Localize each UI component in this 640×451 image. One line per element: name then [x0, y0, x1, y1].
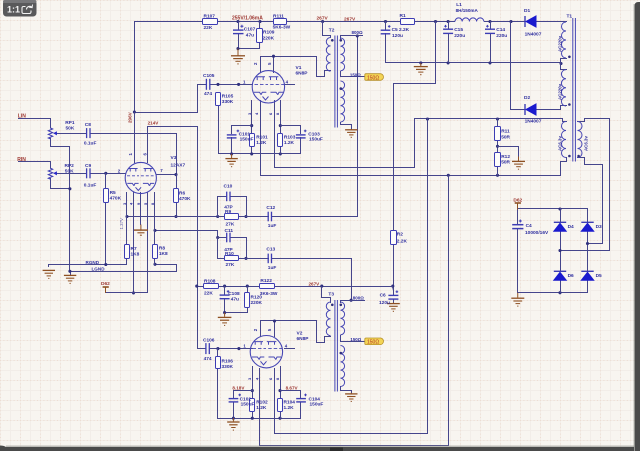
resistor R120 [245, 293, 250, 308]
resistor R102 [250, 399, 255, 412]
svg-text:22K: 22K [204, 290, 213, 296]
resistor R105 [216, 93, 221, 106]
node R106 top junction [216, 347, 219, 350]
inductor L1 [455, 18, 484, 22]
node R101 gnd junction [250, 152, 253, 155]
resistor R103 [278, 134, 283, 147]
ground R11 R12 mid [512, 157, 525, 170]
svg-text:V2: V2 [297, 330, 303, 336]
transformer T3 [326, 300, 344, 392]
node heater D62 junction [132, 291, 135, 294]
node heater x448 junction [447, 174, 450, 177]
svg-text:R10: R10 [225, 251, 234, 257]
svg-text:1uF: 1uF [268, 223, 277, 229]
wire 267V top rail left segment [135, 22, 203, 162]
window shadow right edge [635, 2, 640, 451]
svg-text:C101: C101 [239, 131, 251, 137]
svg-text:150Ω: 150Ω [350, 337, 361, 342]
svg-text:1K8: 1K8 [131, 251, 140, 257]
power port D62 right [515, 203, 521, 210]
wire V1 cathode right node to C103 [281, 126, 301, 134]
svg-text:50K: 50K [65, 169, 74, 175]
wire C108 stem [224, 287, 226, 295]
node C107 ground junction [236, 47, 239, 50]
svg-text:214V: 214V [148, 120, 160, 125]
power port D62 left [103, 287, 109, 293]
potentiometer RP2 [48, 168, 57, 179]
wire V2 cathode right node to C104 [281, 391, 301, 399]
wire V3 pin8 drop [154, 193, 156, 245]
wire V3 plate2 line to C106 [148, 127, 206, 349]
wire V1 cathode left drop [251, 101, 253, 134]
wire T2 secondary tap to 150ohm label [341, 72, 366, 77]
wire C12 to T2 secondary tap line [272, 36, 358, 217]
wire C11 right riser [231, 238, 247, 259]
svg-text:2.2K: 2.2K [397, 239, 408, 245]
node RGND R5 junction [104, 263, 107, 266]
wire R7 bottom stem [126, 259, 128, 265]
ground under C107 [231, 49, 245, 64]
ground V3 heater pin9 [134, 225, 148, 236]
node V1 pin1 [237, 83, 240, 86]
node V1 cathode right junction [279, 124, 282, 127]
wire V1 plates tie bar [261, 57, 331, 77]
svg-text:27K: 27K [226, 222, 235, 228]
ground T3 secondary [345, 393, 357, 402]
node R8 bottom junction [153, 263, 156, 266]
wire T3 secondary tap to 150ohm label [341, 336, 366, 342]
svg-text:470K: 470K [110, 196, 122, 202]
node V2 plates junction [273, 319, 276, 322]
svg-text:220u: 220u [454, 33, 465, 39]
wire T3 primary top lead [322, 287, 331, 303]
resistor R7 [125, 245, 130, 259]
wire C107 stem bottom to ground node [239, 34, 260, 49]
svg-text:150Ω: 150Ω [367, 75, 379, 81]
svg-text:R102: R102 [256, 400, 268, 406]
node filter gnd symbol junction [419, 61, 422, 64]
svg-text:1N4007: 1N4007 [525, 119, 542, 125]
svg-text:1:1: 1:1 [7, 5, 20, 15]
potentiometer RP1 [48, 128, 57, 139]
wire C10 loop right riser [231, 197, 247, 217]
node R11 R12 mid junction [496, 145, 499, 148]
wire T3 secondary bottom to ground [341, 387, 352, 393]
ground RGND [43, 270, 55, 278]
svg-text:267V: 267V [344, 17, 356, 23]
svg-text:C12: C12 [266, 205, 275, 211]
resistor R12 [495, 153, 501, 167]
ground T2 secondary [345, 129, 357, 137]
node C108 top junction [223, 285, 226, 288]
node T3 primary junction [320, 285, 323, 288]
wire top rail R107 to R111 [218, 21, 274, 23]
svg-text:R12: R12 [501, 154, 510, 160]
node D4 D6 mid junction [558, 249, 561, 252]
svg-text:D1: D1 [524, 8, 530, 14]
wire R2 bottom to C6 node [393, 245, 395, 296]
node line B left end [153, 229, 156, 232]
wire T3 secondary top lead [341, 301, 365, 303]
svg-text:800Ω: 800Ω [352, 30, 364, 35]
capacitor C5 [381, 25, 391, 34]
svg-text:R8: R8 [159, 245, 165, 251]
wire C104 bottom stem [300, 403, 302, 419]
svg-text:R2: R2 [397, 232, 403, 238]
wire heater rail 119 [415, 119, 567, 168]
wire R9 right lead to C12 [239, 216, 269, 218]
svg-text:C108: C108 [228, 291, 240, 297]
svg-text:800Ω: 800Ω [353, 296, 365, 301]
wire V2 pin4 stub [285, 348, 295, 350]
wire R104 bottom stem [280, 412, 282, 419]
svg-text:D5: D5 [596, 273, 602, 279]
wire 267V bottom rail R108 to R122 [197, 286, 204, 288]
svg-text:50K: 50K [66, 126, 75, 132]
capacitor C104 [296, 394, 307, 402]
resistor R5 [104, 189, 109, 203]
capacitor C13 [268, 254, 271, 264]
wire heater rail 175 [261, 101, 567, 176]
netlabel 150ohm yellow T3 [365, 338, 384, 346]
wire C103 bottom stem [300, 138, 302, 154]
node T1 center tap junction [559, 62, 562, 65]
resistor R111 [274, 19, 287, 25]
wire C6 top stem [393, 287, 394, 291]
wire R10 right lead to C13 [239, 258, 269, 260]
svg-text:R120: R120 [251, 295, 263, 301]
wire V2 cathode left node to C102 [234, 391, 253, 399]
svg-text:T1: T1 [567, 14, 573, 20]
wire V3 cathode line B [155, 231, 218, 238]
wire R106 bottom stem to cathode gnd rail [218, 369, 301, 419]
wire V1 cathode left node to C101 [232, 126, 252, 134]
node V1 plates junction [272, 55, 275, 58]
wire R6 stem bottom [176, 203, 178, 217]
capacitor C107 [233, 25, 244, 34]
svg-text:C106: C106 [203, 337, 215, 343]
wire R101 bottom stem [251, 147, 253, 154]
wire R11 mid to ground [498, 147, 519, 157]
node R108 left junction [195, 285, 198, 288]
capacitor C101 [227, 130, 239, 138]
ground LGND [64, 275, 76, 283]
wire top rail R111 to R1 [287, 21, 401, 23]
wire V2 cathode left drop [252, 367, 254, 399]
node C108 gnd junction [223, 311, 226, 314]
svg-text:267V: 267V [317, 16, 329, 22]
wire D3 column [587, 231, 589, 272]
wire D3 top drop [587, 209, 589, 223]
resistor R109 [257, 29, 263, 43]
node C14 bottom junction [488, 61, 491, 64]
svg-text:1uF: 1uF [268, 265, 277, 271]
svg-text:R111: R111 [273, 14, 284, 20]
wire B+ rail L1 to D1 [485, 21, 525, 23]
diode D1 [525, 16, 536, 27]
node T2 secondary top junction [356, 34, 359, 37]
wire T2 primary top lead [323, 22, 331, 38]
wire raw B+ rail R1 to L1 [415, 21, 455, 23]
svg-text:8.18V: 8.18V [232, 386, 245, 391]
wire C11 loop left drop to R10 [218, 238, 225, 259]
svg-text:AC6.3v: AC6.3v [558, 136, 563, 151]
svg-text:D2: D2 [524, 95, 530, 101]
ground under C108 [218, 313, 232, 326]
capacitor C6 [388, 290, 398, 299]
wire C107 stem top [238, 22, 240, 30]
svg-text:220u: 220u [496, 33, 507, 39]
svg-text:1.2K: 1.2K [256, 405, 267, 411]
tube V2 [250, 336, 282, 368]
capacitor C103 [296, 130, 307, 138]
svg-text:D4: D4 [568, 224, 574, 230]
svg-text:47u: 47u [246, 33, 254, 39]
transformer T1 [561, 18, 582, 162]
wire C4 stem bottom [517, 229, 519, 293]
wire V3 pin3 to R7 [126, 193, 128, 245]
svg-text:470K: 470K [179, 196, 191, 202]
wire C108 bottom to gnd node [225, 299, 248, 313]
node R104 gnd junction [278, 417, 281, 420]
svg-text:L1: L1 [456, 2, 462, 8]
node 255V junction [236, 20, 239, 23]
resistor R10 [225, 256, 239, 261]
capacitor C105 [206, 79, 209, 90]
node R120 top junction [246, 285, 249, 288]
capacitor C108 [220, 290, 230, 299]
resistor R107 [203, 19, 218, 25]
resistor R104 [278, 399, 283, 412]
node R103 gnd junction [279, 152, 282, 155]
wire heater drop x427 to V2 [275, 119, 428, 434]
svg-text:10000/16V: 10000/16V [525, 230, 549, 236]
wire V1 heater pin7 drop [274, 101, 276, 168]
wire T2 secondary bottom to ground [341, 123, 352, 129]
svg-text:R9: R9 [225, 209, 231, 215]
node R2 C6 junction [391, 285, 394, 288]
svg-text:V3: V3 [171, 155, 177, 161]
svg-text:1.37V: 1.37V [119, 218, 124, 230]
svg-text:6N8P: 6N8P [296, 71, 309, 77]
wire C6 bottom to ground [393, 300, 395, 303]
node C102 gnd junction [232, 417, 235, 420]
wire C14 stems [490, 22, 492, 29]
wire V1 cathode right drop [280, 101, 282, 134]
wire C10 loop left riser [218, 197, 227, 217]
svg-text:RIN: RIN [17, 157, 26, 163]
svg-text:150Ω: 150Ω [350, 73, 361, 78]
wire D62 heater dc rail [518, 208, 588, 210]
node line A left end [125, 215, 128, 218]
node rectifier B+ junction [509, 20, 512, 23]
node D3 D5 mid junction [586, 242, 589, 245]
svg-text:D6: D6 [568, 273, 574, 279]
diode D3 [581, 222, 593, 231]
transformer T2 [326, 36, 344, 128]
wire LIN input to RP1 [19, 119, 51, 129]
svg-text:T3: T3 [328, 291, 334, 297]
capacitor C8 [87, 128, 90, 138]
wire C5 stem [385, 22, 387, 30]
wire T2 secondary top lead [341, 36, 363, 39]
node R5 top junction [104, 172, 107, 175]
wire C5 bottom to filter ground rail [385, 34, 387, 63]
node heater x427 junction [426, 117, 429, 120]
wire C105 to V1 grid pin1 [211, 84, 253, 86]
wire R8 bottom stem [154, 259, 156, 265]
resistor R8 [153, 245, 158, 259]
node R11 top junction [496, 117, 499, 120]
capacitor C12 [268, 212, 271, 222]
svg-text:3K6-3W: 3K6-3W [260, 291, 278, 297]
wire filter ground rail [386, 62, 561, 64]
ground V2 cathode [227, 418, 239, 430]
svg-text:V1: V1 [296, 65, 302, 71]
wire R102 bottom stem [252, 412, 254, 419]
wire R109 top stem [259, 22, 261, 29]
node C14 top junction [488, 20, 491, 23]
wire V2 cathode right drop [280, 367, 282, 399]
svg-text:D3: D3 [596, 224, 602, 230]
svg-text:R1: R1 [400, 13, 406, 19]
wire D4 column [560, 209, 562, 223]
svg-text:R6: R6 [179, 190, 185, 196]
svg-text:R103: R103 [284, 135, 296, 141]
wire R106 top stem [217, 349, 219, 357]
wire C101 bottom stem [231, 138, 233, 154]
svg-text:LGND: LGND [92, 267, 106, 272]
svg-text:50R: 50R [501, 134, 510, 140]
svg-text:47u: 47u [231, 297, 239, 303]
svg-text:12AX7: 12AX7 [171, 162, 186, 168]
svg-text:R107: R107 [204, 14, 216, 20]
svg-text:C4: C4 [526, 223, 532, 229]
resistor R6 [174, 189, 179, 203]
svg-text:R105: R105 [222, 94, 234, 100]
wire V1 plate pin5 [273, 57, 275, 73]
wire R6 stem top [176, 175, 178, 189]
node V3 plate1 branch [133, 110, 136, 113]
svg-text:296V: 296V [127, 111, 132, 123]
svg-text:C8: C8 [85, 122, 91, 128]
svg-text:R106: R106 [222, 358, 234, 364]
resistor R2 [391, 231, 397, 245]
wire LGND rail [71, 265, 177, 275]
svg-text:C9: C9 [85, 163, 91, 169]
node V2 cathode right junction [278, 389, 281, 392]
wire C13 to T3 secondary line [272, 259, 352, 301]
svg-text:6N8P: 6N8P [297, 336, 310, 342]
node D4 top junction [558, 207, 561, 210]
wire C9 to V3 grid pin2 [91, 173, 126, 175]
svg-text:T2: T2 [329, 28, 335, 34]
svg-text:1K8: 1K8 [159, 251, 168, 257]
svg-text:1.2K: 1.2K [284, 140, 295, 146]
svg-text:0.1uF: 0.1uF [84, 140, 97, 146]
svg-text:RGND: RGND [86, 260, 100, 265]
capacitor C4 [512, 220, 523, 229]
wire R5 stem top [105, 174, 107, 189]
wire R103 bottom stem [280, 147, 282, 154]
wire R120 top stem [247, 287, 249, 293]
svg-text:474: 474 [204, 91, 212, 97]
wire V2 plates tie bar [261, 321, 331, 343]
node C10 loop right junction [244, 215, 247, 218]
svg-text:C6: C6 [380, 292, 386, 298]
wire D62 port stem [517, 204, 519, 209]
resistor R101 [250, 134, 255, 147]
resistor R106 [216, 357, 221, 369]
node bridge gnd junction [558, 291, 561, 294]
ground PSU filter [414, 63, 428, 75]
wire T1 6.3v right winding top to bridge [561, 119, 610, 251]
node T2 primary junction [321, 20, 324, 23]
wire raw B+ branch down to R2 feed [394, 22, 436, 231]
ground bridge [511, 293, 524, 306]
node V2 pin1 junction [237, 347, 240, 350]
wire V3 plate1 branch to C105 [135, 85, 207, 113]
svg-text:220K: 220K [251, 300, 263, 306]
wire D1 anode to T1 [537, 21, 567, 23]
wire RP1 bottom to LGND [51, 138, 70, 271]
wire V3 plate1 pin to circle [134, 113, 136, 163]
svg-text:150Ω: 150Ω [367, 340, 379, 346]
wire rectifier column x511 [510, 22, 512, 110]
svg-text:AC220v: AC220v [558, 35, 563, 52]
svg-text:1.2K: 1.2K [284, 405, 295, 411]
svg-text:RP2: RP2 [65, 163, 75, 169]
wire RP2 wiper to C9 [57, 173, 87, 175]
wire V2 grid line C106 [210, 348, 253, 350]
resistor R11 [495, 127, 501, 141]
node R12 bottom junction [496, 174, 499, 177]
resistor R122 [260, 284, 275, 289]
wire C102 bottom stem [233, 403, 235, 419]
svg-text:C107: C107 [244, 27, 256, 33]
wire bridge bottom rail [518, 292, 588, 294]
svg-text:150uF: 150uF [241, 402, 255, 408]
svg-text:22K: 22K [204, 25, 213, 31]
svg-text:150uF: 150uF [310, 402, 324, 408]
svg-text:RP1: RP1 [65, 120, 75, 126]
svg-text:R108: R108 [204, 278, 216, 284]
svg-text:D62: D62 [513, 197, 522, 203]
node raw B+ branch junction [434, 20, 437, 23]
svg-text:150uF: 150uF [309, 137, 323, 143]
svg-text:R122: R122 [260, 278, 272, 284]
svg-text:R11: R11 [501, 129, 510, 135]
svg-text:C10: C10 [224, 183, 233, 189]
wire heater drop x448 to V2 [260, 176, 449, 446]
svg-text:R7: R7 [131, 246, 137, 252]
node C10 loop left junction [216, 215, 219, 218]
node R102 gnd junction [251, 417, 254, 420]
svg-text:27K: 27K [226, 262, 235, 268]
svg-text:AC220v: AC220v [558, 83, 563, 100]
wire V1 pin4 stub [285, 84, 295, 86]
svg-text:220K: 220K [263, 36, 275, 42]
capacitor C15 [443, 25, 453, 34]
wire heater rail 167 [275, 167, 415, 169]
svg-text:C14: C14 [496, 27, 505, 33]
node C11 loop left junction [216, 236, 219, 239]
svg-text:474: 474 [204, 356, 212, 362]
wire V3 heater pin9 to ground [140, 193, 142, 225]
wire R5 stem bottom to RGND [105, 203, 107, 265]
svg-text:150uF: 150uF [240, 137, 254, 143]
node R10 right junction [244, 257, 247, 260]
